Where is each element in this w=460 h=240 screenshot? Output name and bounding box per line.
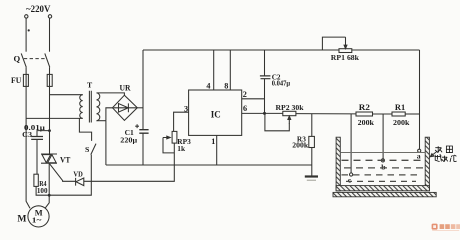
node C3/triac junction — [48, 129, 51, 132]
tank floor — [336, 186, 429, 191]
svg-text:R2: R2 — [359, 103, 370, 112]
wire VD to RP3 — [84, 143, 175, 181]
switch S wire from transformer — [79, 118, 91, 140]
IC box — [189, 90, 242, 135]
wire triac top — [49, 131, 51, 154]
pin 8 riser — [229, 50, 231, 90]
pin 1 wire — [216, 135, 218, 165]
svg-text:RP1 68k: RP1 68k — [331, 53, 360, 62]
wire left rail down to motor — [26, 118, 30, 208]
switch Q blade left — [21, 53, 26, 67]
wire secondary top to bridge — [97, 93, 125, 95]
motor M circle — [28, 206, 49, 227]
diode VD — [76, 178, 84, 186]
svg-text:200k: 200k — [393, 118, 410, 127]
wire negative rail down — [105, 121, 107, 165]
transformer primary winding — [80, 95, 83, 119]
electrode b tip — [381, 159, 384, 162]
wire plus rail up to bus — [142, 50, 144, 129]
node motor junction — [48, 194, 51, 197]
svg-text:~220V: ~220V — [26, 4, 51, 14]
wire N drop to switch — [49, 18, 51, 52]
rectifier UR diode — [114, 103, 137, 112]
svg-text:1: 1 — [211, 137, 215, 146]
wire bridge left vertex stub — [106, 108, 113, 121]
svg-text:R1: R1 — [395, 103, 405, 112]
electrode c tip — [350, 173, 353, 176]
svg-text:1k: 1k — [177, 144, 186, 153]
wire L drop to switch — [25, 18, 27, 52]
wire C3 bottom to R4 — [36, 139, 38, 174]
pin 3 wire — [174, 112, 189, 131]
tank left wall — [336, 137, 340, 191]
potentiometer RP1 wiper — [344, 37, 347, 49]
top supply bus — [143, 49, 339, 51]
terminal L — [25, 15, 28, 18]
resistor R3 — [309, 136, 315, 147]
svg-text:2: 2 — [243, 90, 247, 99]
svg-text:IC: IC — [211, 109, 221, 119]
svg-text:FU: FU — [11, 76, 22, 85]
wire R1 to electrode a riser — [405, 113, 419, 115]
svg-text:8: 8 — [224, 81, 228, 90]
resistor R2 — [356, 112, 373, 116]
svg-text:M: M — [17, 214, 26, 225]
svg-text:C3: C3 — [22, 130, 32, 139]
wire C2 to pin2/6 — [264, 79, 266, 114]
potentiometer RP3 wiper — [163, 136, 170, 139]
threshold chain wire — [296, 113, 356, 115]
tank label shuixiang — [435, 146, 452, 153]
svg-text:4: 4 — [206, 81, 210, 90]
potentiometer RP2 — [283, 111, 296, 115]
pin 6 wire — [242, 112, 265, 114]
bottom ground bus — [106, 164, 312, 166]
electrode c drop — [350, 114, 352, 173]
fuse FU left — [23, 74, 28, 86]
wire N switch to fuse — [49, 67, 51, 130]
water dashed level 2 — [344, 167, 424, 169]
wire C1 bottom — [142, 133, 144, 165]
phase mark dot — [28, 29, 30, 31]
switch S blade — [91, 144, 96, 155]
svg-text:VT: VT — [60, 155, 71, 164]
svg-text:S: S — [85, 145, 89, 154]
potentiometer RP3 — [172, 131, 177, 143]
wire Vcc to C2 — [264, 50, 266, 76]
electrode a tip — [418, 149, 421, 152]
svg-text:220μ: 220μ — [120, 135, 138, 144]
potentiometer RP1 — [339, 49, 352, 53]
triac gate wire — [50, 164, 76, 182]
svg-text:RP2 30k: RP2 30k — [276, 103, 305, 112]
resistor R1 — [392, 112, 405, 116]
triac VT — [41, 154, 57, 163]
switch S lower wire — [49, 155, 91, 196]
switch Q blade right — [45, 53, 50, 67]
wire R4 bottom — [36, 186, 49, 195]
svg-text:200k: 200k — [292, 142, 308, 150]
electrode b drop — [382, 114, 384, 159]
wire R3 to ground — [311, 148, 313, 177]
wire C3 top to node — [37, 131, 50, 137]
tank label huoshuichi — [435, 154, 457, 162]
terminal N — [48, 15, 51, 18]
node pin6 junction — [263, 112, 266, 115]
svg-text:VD: VD — [73, 170, 83, 179]
capacitor C3 — [31, 137, 43, 140]
wire pin6 to RP2 — [265, 112, 283, 114]
watermark logo square — [432, 224, 438, 230]
water full level line — [340, 152, 425, 154]
svg-text:0.047μ: 0.047μ — [272, 80, 290, 88]
svg-text:6: 6 — [243, 104, 247, 113]
svg-text:T: T — [87, 81, 93, 90]
wire L switch to fuse — [25, 67, 27, 118]
electrode a riser — [419, 50, 421, 149]
tank label arrow — [430, 152, 436, 157]
pin 4 riser — [213, 50, 215, 90]
wire primary top tee — [50, 94, 83, 96]
tank base slab — [333, 192, 436, 196]
transformer core — [89, 91, 91, 123]
wire bridge plus stub — [137, 107, 143, 109]
wire primary bottom tee — [26, 117, 83, 119]
switch Q link dashed — [24, 58, 47, 60]
water dashed level 4 — [346, 180, 416, 182]
svg-text:Q: Q — [14, 53, 21, 63]
wire secondary bottom — [97, 120, 106, 122]
resistor R3 drop — [311, 114, 313, 137]
svg-text:c: c — [348, 175, 352, 184]
wire R2 to R1 — [373, 113, 393, 115]
fuse FU right — [47, 74, 52, 86]
tank right wall — [425, 137, 429, 191]
potentiometer RP2 wiper — [288, 116, 291, 123]
wire triac bottom to motor — [45, 163, 49, 208]
svg-text:100: 100 — [37, 186, 48, 195]
top supply bus right of RP1 — [352, 49, 420, 51]
potentiometer RP2 wiper loop — [265, 114, 289, 131]
water dashed level 1 — [342, 159, 425, 161]
capacitor C1 plus sign — [135, 124, 139, 128]
capacitor C1 — [139, 130, 148, 134]
pin 2 wire — [242, 98, 265, 100]
resistor R4 — [34, 174, 38, 186]
svg-text:1~: 1~ — [32, 216, 42, 225]
watermark text — [440, 224, 460, 229]
water dashed level 3 — [342, 174, 421, 176]
potentiometer RP1 wiper loop — [322, 37, 345, 50]
potentiometer RP3 wiper loop — [163, 138, 174, 153]
rectifier UR diamond — [113, 95, 138, 120]
ground — [305, 175, 318, 177]
svg-text:UR: UR — [120, 83, 131, 92]
transformer secondary winding — [97, 93, 100, 121]
capacitor C2 — [260, 76, 271, 79]
svg-text:200k: 200k — [358, 118, 375, 127]
svg-text:b: b — [381, 163, 386, 172]
